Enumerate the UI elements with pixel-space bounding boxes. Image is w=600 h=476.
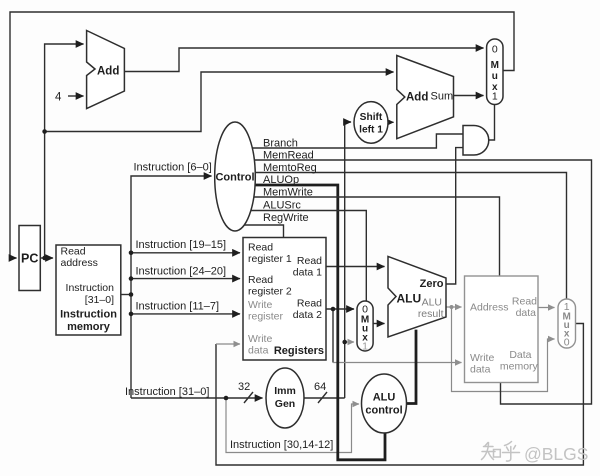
svg-text:data 1: data 1 (293, 267, 322, 279)
svg-text:ALU: ALU (422, 297, 442, 309)
svg-text:Write: Write (470, 352, 494, 364)
svg-text:Instruction: Instruction (66, 282, 115, 294)
svg-text:0: 0 (564, 337, 570, 349)
svg-text:M: M (491, 60, 499, 71)
svg-text:result: result (418, 308, 444, 320)
svg-text:Instruction [24–20]: Instruction [24–20] (136, 266, 227, 278)
svg-text:PC: PC (21, 252, 38, 266)
svg-text:Add: Add (97, 66, 119, 78)
svg-text:Data: Data (509, 349, 531, 361)
svg-text:Branch: Branch (263, 138, 298, 150)
svg-text:Write: Write (248, 299, 272, 311)
svg-text:Sum: Sum (431, 91, 454, 103)
svg-text:Gen: Gen (275, 398, 295, 410)
svg-text:ALUOp: ALUOp (263, 174, 299, 186)
svg-text:data: data (248, 345, 269, 357)
svg-text:Zero: Zero (420, 278, 444, 290)
svg-text:0: 0 (492, 44, 498, 56)
svg-text:Read: Read (512, 296, 537, 308)
svg-text:Instruction [11–7]: Instruction [11–7] (136, 301, 220, 313)
svg-text:data: data (470, 364, 491, 376)
svg-text:Read: Read (297, 255, 322, 267)
svg-text:Instruction [31–0]: Instruction [31–0] (125, 386, 209, 398)
svg-text:Read: Read (248, 242, 273, 254)
svg-text:left 1: left 1 (359, 125, 383, 136)
svg-text:1: 1 (492, 91, 498, 103)
svg-text:Control: Control (215, 172, 254, 184)
svg-text:address: address (61, 257, 98, 269)
svg-text:Read: Read (297, 298, 322, 310)
svg-text:Instruction [30,14-12]: Instruction [30,14-12] (230, 439, 333, 451)
svg-text:MemRead: MemRead (263, 150, 314, 162)
svg-text:Instruction [19–15]: Instruction [19–15] (136, 239, 227, 251)
svg-text:Address: Address (470, 302, 509, 314)
svg-text:MemWrite: MemWrite (263, 187, 313, 199)
svg-text:1: 1 (362, 341, 368, 353)
svg-text:Instruction: Instruction (60, 309, 117, 321)
svg-text:data 2: data 2 (293, 309, 322, 321)
svg-text:data: data (516, 307, 537, 319)
svg-text:Write: Write (248, 333, 272, 345)
svg-text:MemtoReg: MemtoReg (263, 162, 317, 174)
svg-text:ALUSrc: ALUSrc (263, 200, 301, 212)
svg-text:4: 4 (55, 92, 62, 104)
svg-text:memory: memory (67, 321, 111, 333)
svg-text:@BLGS: @BLGS (524, 444, 588, 464)
svg-text:ALU: ALU (397, 292, 422, 306)
svg-text:Read: Read (61, 246, 86, 258)
svg-text:ALU: ALU (373, 392, 396, 404)
svg-text:u: u (492, 71, 498, 82)
svg-text:control: control (365, 405, 402, 417)
svg-text:register: register (248, 311, 284, 323)
svg-text:Add: Add (406, 92, 428, 104)
svg-text:Instruction [6–0]: Instruction [6–0] (134, 162, 212, 174)
svg-text:register 1: register 1 (248, 253, 292, 265)
svg-text:register 2: register 2 (248, 286, 292, 298)
svg-text:Imm: Imm (274, 385, 296, 397)
svg-text:RegWrite: RegWrite (263, 212, 309, 224)
svg-text:Registers: Registers (274, 345, 324, 357)
svg-text:Read: Read (248, 274, 273, 286)
svg-text:[31–0]: [31–0] (85, 294, 114, 306)
svg-text:memory: memory (500, 361, 539, 373)
svg-text:Shift: Shift (360, 112, 383, 123)
svg-text:32: 32 (238, 381, 250, 393)
svg-text:64: 64 (314, 381, 326, 393)
